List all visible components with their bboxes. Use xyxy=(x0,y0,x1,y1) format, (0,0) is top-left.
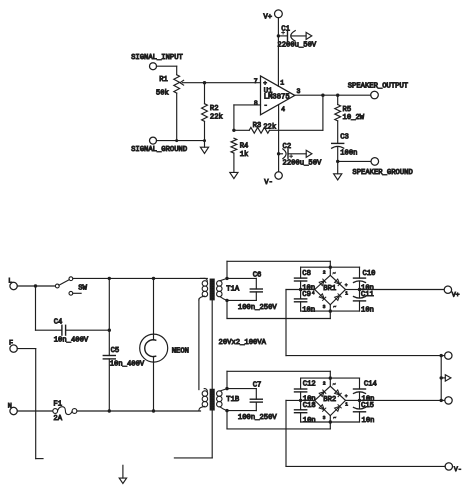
svg-text:1k: 1k xyxy=(240,151,249,159)
svg-text:10n: 10n xyxy=(361,306,374,314)
svg-text:C3: C3 xyxy=(340,134,349,142)
svg-text:V+: V+ xyxy=(263,13,272,21)
svg-text:~: ~ xyxy=(333,416,336,421)
svg-text:C2: C2 xyxy=(283,143,292,151)
svg-text:+: + xyxy=(263,80,267,87)
svg-text:C5: C5 xyxy=(111,347,120,355)
svg-text:2A: 2A xyxy=(53,415,62,423)
svg-text:1: 1 xyxy=(345,403,348,408)
svg-text:C10: C10 xyxy=(363,270,376,278)
svg-text:100n: 100n xyxy=(340,149,357,157)
svg-text:C11: C11 xyxy=(361,291,374,299)
svg-text:V+: V+ xyxy=(452,292,460,299)
svg-text:BR1: BR1 xyxy=(323,285,336,293)
svg-text:C9: C9 xyxy=(302,291,311,299)
svg-text:SW: SW xyxy=(78,284,87,292)
svg-text:NEON: NEON xyxy=(172,347,189,355)
svg-text:SPEAKER_OUTPUT: SPEAKER_OUTPUT xyxy=(348,82,409,90)
svg-text:T1A: T1A xyxy=(226,286,240,294)
svg-text:N: N xyxy=(8,403,12,411)
svg-text:+: + xyxy=(345,395,348,400)
svg-text:2: 2 xyxy=(323,270,326,275)
svg-text:-: - xyxy=(264,102,268,110)
svg-text:100n_250V: 100n_250V xyxy=(238,414,278,422)
svg-text:C8: C8 xyxy=(302,270,311,278)
svg-text:SIGNAL_INPUT: SIGNAL_INPUT xyxy=(131,54,183,62)
svg-text:8: 8 xyxy=(254,100,258,107)
svg-text:3: 3 xyxy=(297,88,301,95)
svg-text:7: 7 xyxy=(254,78,258,85)
svg-text:20Vx2_100VA: 20Vx2_100VA xyxy=(219,339,267,347)
svg-text:22k: 22k xyxy=(263,123,276,131)
svg-text:R4: R4 xyxy=(240,143,249,151)
svg-text:V-: V- xyxy=(264,179,273,187)
svg-text:R3: R3 xyxy=(253,122,262,130)
svg-text:~: ~ xyxy=(333,305,336,310)
svg-text:10n_400V: 10n_400V xyxy=(110,360,145,368)
svg-text:C1: C1 xyxy=(281,25,290,33)
svg-text:~: ~ xyxy=(333,272,336,277)
svg-text:L: L xyxy=(8,277,12,285)
svg-text:C14: C14 xyxy=(364,381,377,389)
svg-text:R2: R2 xyxy=(210,105,219,113)
svg-text:10n: 10n xyxy=(303,417,316,425)
svg-text:BR2: BR2 xyxy=(323,396,336,404)
svg-text:100n_250V: 100n_250V xyxy=(238,304,278,312)
svg-text:2: 2 xyxy=(323,381,326,386)
svg-text:C7: C7 xyxy=(253,382,262,390)
svg-text:10n: 10n xyxy=(302,306,315,314)
svg-text:R5: R5 xyxy=(343,106,352,114)
svg-text:F1: F1 xyxy=(53,401,62,409)
svg-text:10n: 10n xyxy=(362,417,375,425)
svg-text:C12: C12 xyxy=(303,381,316,389)
svg-text:50k: 50k xyxy=(156,90,169,98)
svg-text:3: 3 xyxy=(323,305,326,310)
svg-text:+: + xyxy=(345,284,348,289)
svg-text:SIGNAL_GROUND: SIGNAL_GROUND xyxy=(131,146,187,154)
svg-text:C4: C4 xyxy=(54,319,63,327)
svg-text:2200u_50V: 2200u_50V xyxy=(277,41,317,49)
svg-text:R1: R1 xyxy=(159,76,168,84)
svg-text:22k: 22k xyxy=(210,114,223,122)
svg-text:4: 4 xyxy=(281,106,285,113)
svg-text:SPEAKER_GROUND: SPEAKER_GROUND xyxy=(352,169,412,177)
svg-text:C6: C6 xyxy=(253,271,262,279)
svg-text:~: ~ xyxy=(333,382,336,387)
svg-text:1: 1 xyxy=(345,292,348,297)
svg-text:F: F xyxy=(9,340,13,348)
svg-text:2200u_50V: 2200u_50V xyxy=(283,160,323,168)
svg-text:C15: C15 xyxy=(361,402,374,410)
svg-text:10n_400V: 10n_400V xyxy=(54,336,89,344)
svg-text:T1B: T1B xyxy=(226,396,240,404)
svg-text:LM3875: LM3875 xyxy=(264,94,290,102)
svg-text:V-: V- xyxy=(454,466,462,473)
svg-text:10_2W: 10_2W xyxy=(343,114,365,122)
svg-text:C13: C13 xyxy=(303,402,316,410)
svg-text:3: 3 xyxy=(323,416,326,421)
svg-text:1: 1 xyxy=(280,80,284,87)
